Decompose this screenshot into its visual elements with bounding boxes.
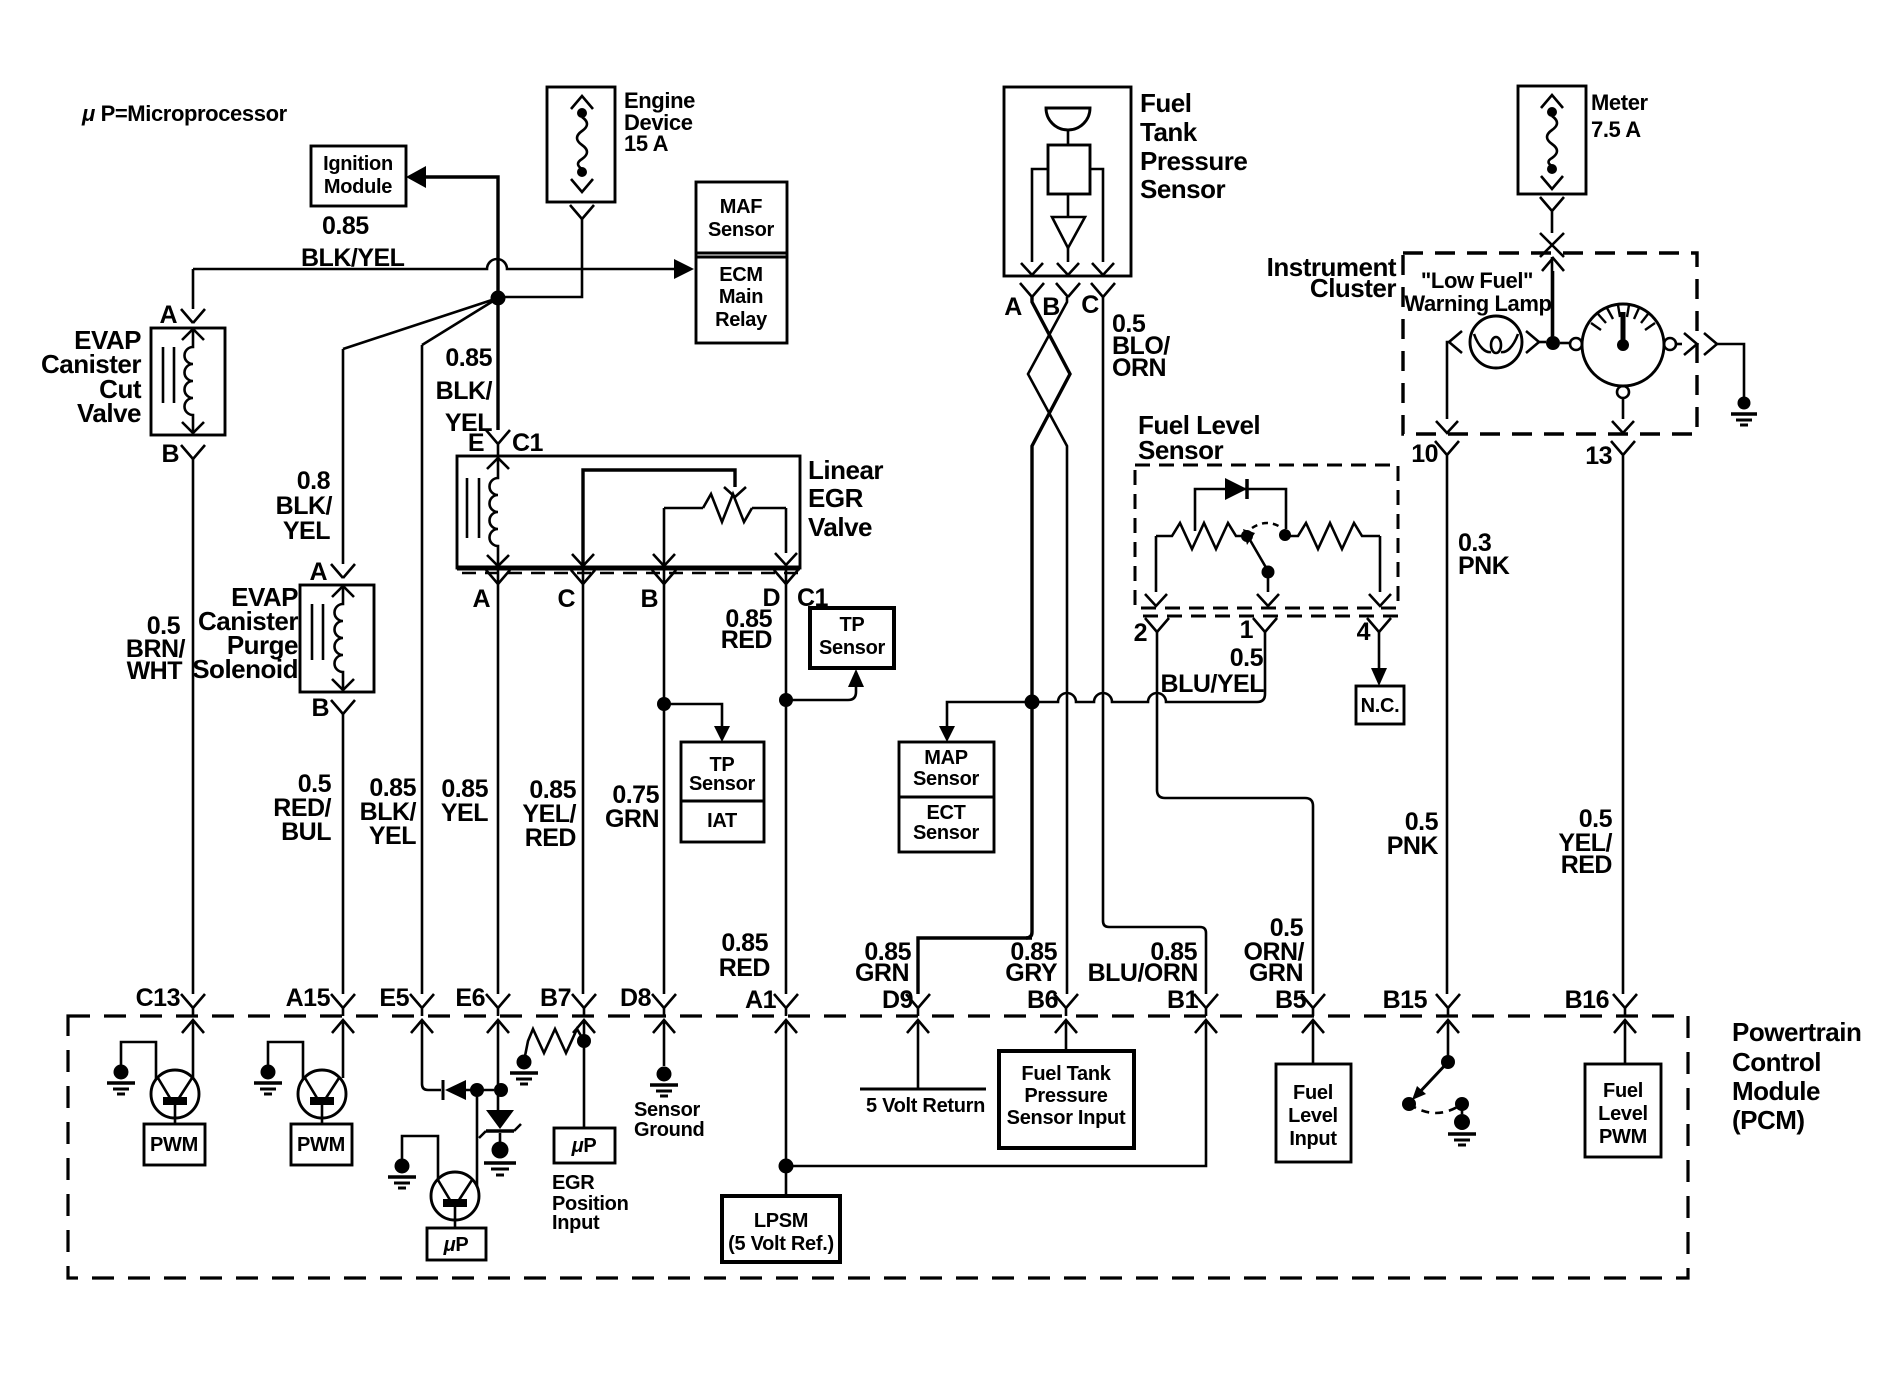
svg-text:Module: Module [1732, 1076, 1820, 1106]
svg-text:0.8: 0.8 [297, 467, 331, 495]
svg-text:E6: E6 [455, 984, 485, 1012]
svg-text:B15: B15 [1383, 986, 1428, 1014]
svg-text:YEL: YEL [441, 799, 488, 827]
svg-text:EGR: EGR [808, 483, 864, 513]
svg-text:RED: RED [1561, 851, 1612, 879]
svg-text:Main: Main [719, 286, 763, 308]
svg-text:0.85: 0.85 [721, 929, 768, 957]
svg-text:(PCM): (PCM) [1732, 1105, 1805, 1135]
svg-text:Input: Input [552, 1212, 600, 1234]
svg-text:BLK/: BLK/ [436, 377, 493, 405]
svg-text:B5: B5 [1275, 986, 1307, 1014]
svg-text:Pressure: Pressure [1024, 1085, 1107, 1107]
svg-text:WHT: WHT [127, 657, 183, 685]
svg-text:4: 4 [1357, 618, 1371, 646]
svg-text:Sensor: Sensor [1140, 174, 1226, 204]
svg-text:(5 Volt Ref.): (5 Volt Ref.) [728, 1233, 834, 1255]
svg-text:0.85: 0.85 [445, 344, 492, 372]
svg-text:Meter: Meter [1591, 90, 1649, 115]
svg-text:ECT: ECT [926, 802, 965, 824]
svg-text:15 A: 15 A [624, 131, 669, 156]
svg-text:2: 2 [1134, 619, 1147, 647]
svg-text:Solenoid: Solenoid [192, 654, 298, 684]
svg-text:BLK/: BLK/ [276, 492, 333, 520]
svg-text:Level: Level [1288, 1105, 1338, 1127]
svg-text:B6: B6 [1027, 986, 1058, 1014]
svg-text:Powertrain: Powertrain [1732, 1017, 1861, 1047]
svg-text:YEL: YEL [445, 409, 492, 437]
svg-text:Sensor: Sensor [708, 219, 775, 241]
svg-text:Sensor Input: Sensor Input [1007, 1107, 1126, 1129]
svg-text:Ignition: Ignition [323, 153, 393, 175]
svg-text:Fuel Tank: Fuel Tank [1021, 1063, 1111, 1085]
svg-text:D8: D8 [620, 984, 652, 1012]
svg-text:Cluster: Cluster [1310, 273, 1396, 303]
svg-text:BLU/YEL: BLU/YEL [1161, 670, 1265, 698]
svg-text:"Low Fuel": "Low Fuel" [1421, 268, 1533, 293]
svg-text:Level: Level [1598, 1103, 1648, 1125]
svg-text:μP: μP [571, 1135, 597, 1157]
svg-text:GRY: GRY [1005, 959, 1058, 987]
svg-text:Linear: Linear [808, 455, 883, 485]
svg-text:A: A [1004, 293, 1022, 321]
svg-text:B: B [311, 694, 329, 722]
svg-text:RED: RED [525, 824, 576, 852]
svg-text:5 Volt Return: 5 Volt Return [866, 1095, 985, 1117]
svg-text:BLU/ORN: BLU/ORN [1088, 959, 1198, 987]
svg-text:IAT: IAT [707, 810, 737, 832]
svg-text:A: A [472, 585, 490, 613]
svg-text:EGR: EGR [552, 1172, 595, 1194]
svg-text:C1: C1 [512, 429, 544, 457]
svg-text:Sensor: Sensor [1138, 435, 1224, 465]
svg-text:Sensor: Sensor [913, 822, 980, 844]
svg-text:C: C [1081, 291, 1099, 319]
svg-text:10: 10 [1411, 440, 1438, 468]
svg-text:A1: A1 [745, 986, 777, 1014]
svg-text:N.C.: N.C. [1361, 695, 1400, 717]
svg-text:Tank: Tank [1140, 117, 1198, 147]
svg-text:LPSM: LPSM [754, 1210, 808, 1232]
svg-text:B7: B7 [540, 984, 571, 1012]
svg-text:PNK: PNK [1387, 832, 1439, 860]
svg-text:TP: TP [840, 614, 865, 636]
svg-text:RED: RED [721, 626, 772, 654]
svg-text:D9: D9 [882, 986, 913, 1014]
svg-text:E5: E5 [379, 984, 409, 1012]
svg-text:ORN: ORN [1112, 354, 1166, 382]
svg-text:BLK/YEL: BLK/YEL [301, 244, 405, 272]
svg-text:ECM: ECM [719, 264, 763, 286]
svg-text:Pressure: Pressure [1140, 146, 1247, 176]
svg-text:Valve: Valve [77, 398, 141, 428]
svg-text:B: B [161, 440, 179, 468]
svg-text:BUL: BUL [281, 818, 331, 846]
svg-text:RED: RED [719, 954, 770, 982]
svg-text:A15: A15 [286, 984, 331, 1012]
svg-text:Ground: Ground [634, 1119, 704, 1141]
svg-text:13: 13 [1585, 442, 1612, 470]
svg-text:GRN: GRN [1249, 959, 1303, 987]
svg-text:GRN: GRN [855, 959, 909, 987]
svg-text:7.5 A: 7.5 A [1591, 117, 1641, 142]
svg-text:C13: C13 [136, 984, 180, 1012]
svg-text:Fuel: Fuel [1603, 1080, 1643, 1102]
svg-text:MAP: MAP [924, 747, 968, 769]
svg-text:Valve: Valve [808, 512, 872, 542]
svg-text:Sensor: Sensor [689, 773, 756, 795]
svg-text:Sensor: Sensor [819, 637, 886, 659]
svg-text:YEL: YEL [283, 517, 330, 545]
svg-text:PNK: PNK [1458, 552, 1510, 580]
svg-text:B1: B1 [1167, 986, 1199, 1014]
svg-text:B: B [1042, 293, 1060, 321]
svg-text:Sensor: Sensor [913, 768, 980, 790]
svg-text:Relay: Relay [715, 309, 768, 331]
svg-text:MAF: MAF [720, 196, 763, 218]
svg-text:A: A [309, 558, 327, 586]
svg-text:YEL: YEL [369, 822, 416, 850]
svg-text:Fuel: Fuel [1293, 1082, 1333, 1104]
svg-text:0.85: 0.85 [322, 212, 369, 240]
svg-text:0.5: 0.5 [1230, 644, 1264, 672]
svg-text:PWM: PWM [297, 1134, 345, 1156]
svg-text:Module: Module [324, 176, 392, 198]
svg-text:B16: B16 [1565, 986, 1609, 1014]
svg-text:C: C [557, 585, 575, 613]
svg-text:Sensor: Sensor [634, 1099, 701, 1121]
svg-text:μP: μP [443, 1234, 469, 1256]
svg-text:B: B [640, 585, 658, 613]
svg-text:1: 1 [1240, 616, 1254, 644]
svg-text:PWM: PWM [1599, 1126, 1647, 1148]
svg-text:A: A [159, 301, 177, 329]
svg-text:PWM: PWM [150, 1134, 198, 1156]
svg-text:Warning Lamp: Warning Lamp [1404, 291, 1551, 316]
svg-text:Input: Input [1289, 1128, 1337, 1150]
svg-text:Fuel: Fuel [1140, 88, 1191, 118]
svg-text:Control: Control [1732, 1047, 1821, 1077]
svg-text:μ P=Microprocessor: μ P=Microprocessor [81, 101, 288, 126]
svg-text:GRN: GRN [605, 805, 659, 833]
